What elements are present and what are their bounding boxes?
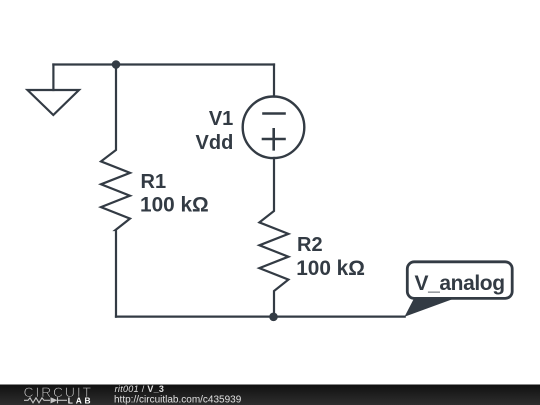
svg-text:http://circuitlab.com/c435939: http://circuitlab.com/c435939 xyxy=(114,394,242,405)
svg-text:V1: V1 xyxy=(209,108,233,130)
svg-text:LAB: LAB xyxy=(68,396,94,405)
svg-text:R2: R2 xyxy=(297,234,323,256)
svg-text:rit001 / V_3: rit001 / V_3 xyxy=(115,384,165,394)
svg-text:V_analog: V_analog xyxy=(415,272,505,295)
svg-text:100 kΩ: 100 kΩ xyxy=(140,193,209,216)
svg-text:100 kΩ: 100 kΩ xyxy=(296,257,365,280)
svg-text:R1: R1 xyxy=(141,171,167,193)
svg-text:Vdd: Vdd xyxy=(196,132,234,154)
